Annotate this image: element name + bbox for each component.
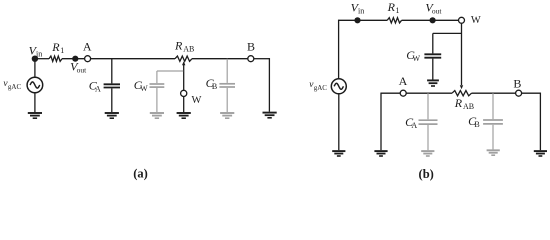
- wire: (b) R1 to node W: [402, 19, 459, 21]
- capacitor C_W (b): [424, 33, 441, 79]
- value label C_A (a): [89, 79, 101, 94]
- svg-text:1: 1: [396, 6, 400, 15]
- svg-text:1: 1: [60, 46, 64, 55]
- ground (b) source: [332, 151, 345, 156]
- ground (a) C_W (gray): [150, 113, 164, 118]
- svg-text:W: W: [192, 95, 202, 106]
- label Vin (a): [29, 43, 43, 58]
- svg-text:R: R: [387, 0, 396, 14]
- node W terminal (a): [181, 90, 187, 96]
- ground (a) source: [28, 113, 42, 118]
- potentiometer wiper arrow (b): [460, 85, 463, 89]
- wire: (b) node W down to wiper arrow: [461, 24, 463, 86]
- wire: (a) source to ground: [34, 93, 36, 112]
- wire: (a) C_W tap from wiper (gray): [157, 70, 183, 72]
- node A terminal (a): [85, 56, 91, 62]
- svg-text:B: B: [212, 82, 217, 91]
- node A terminal (b): [400, 90, 406, 96]
- svg-text:gAC: gAC: [8, 83, 22, 91]
- value label C_A (b): [405, 115, 417, 130]
- value label R1 (b): [387, 0, 400, 15]
- svg-text:out: out: [77, 66, 88, 75]
- capacitor C_B (b) gray: [483, 93, 503, 149]
- node W terminal (b): [459, 17, 465, 23]
- wire: (b) C_W tap from wiper line: [433, 32, 462, 34]
- AC source v_gAC (b): [331, 79, 346, 94]
- node Vin junction dot (a): [32, 56, 38, 62]
- wire: (b) top-left corner to R1: [339, 19, 388, 21]
- wire: (b) node A to R_AB: [406, 92, 452, 94]
- resistor R1 (a): [49, 56, 62, 61]
- svg-text:A: A: [411, 121, 417, 130]
- svg-text:A: A: [83, 39, 92, 53]
- node Vout junction dot (a): [72, 56, 78, 62]
- capacitor C_A (b) gray: [419, 93, 438, 150]
- capacitor C_B (a) gray: [219, 59, 235, 112]
- ground (b) rail right: [534, 151, 547, 156]
- node B terminal (a): [248, 56, 254, 62]
- wire: (a) top rail V_in to R1: [35, 58, 49, 60]
- svg-text:R: R: [454, 96, 463, 110]
- svg-text:B: B: [247, 39, 255, 53]
- wire: (a) W to ground: [183, 97, 185, 113]
- svg-text:in: in: [358, 7, 364, 16]
- wire: (b) R_AB to node B: [472, 92, 516, 94]
- potentiometer wiper arrow (a): [182, 61, 185, 90]
- svg-text:W: W: [140, 84, 148, 93]
- ground (a) C_B (gray): [220, 113, 234, 118]
- resistor R_AB (b): [452, 91, 472, 96]
- wire: (b) source to ground: [338, 94, 340, 150]
- label v_gAC (b): [309, 80, 327, 92]
- label Vout (b): [425, 1, 442, 16]
- ground (a) C_A: [105, 113, 119, 118]
- value label C_B (a): [206, 76, 218, 91]
- ground (a) W: [177, 113, 191, 118]
- value label R_AB (b): [454, 96, 474, 111]
- svg-text:(a): (a): [133, 166, 148, 180]
- svg-text:W: W: [471, 15, 481, 26]
- ground (b) C_A (gray): [421, 151, 434, 156]
- svg-text:gAC: gAC: [314, 84, 328, 92]
- svg-text:A: A: [399, 74, 408, 88]
- ground (a) right: [263, 113, 277, 118]
- value label C_W (a): [134, 78, 148, 93]
- capacitor C_W (a) gray: [150, 71, 165, 112]
- svg-text:W: W: [413, 54, 421, 63]
- svg-text:(b): (b): [419, 167, 434, 181]
- svg-text:AB: AB: [463, 102, 474, 111]
- wire: (b) bottom rail left end, down to ground: [381, 92, 400, 94]
- label Vin (b): [351, 1, 365, 16]
- node B terminal (b): [516, 90, 522, 96]
- wire: (a) node B to right corner and down: [254, 58, 269, 60]
- wire: (a) Vin down to source: [34, 59, 36, 78]
- wire: (a) R_AB to node B: [192, 58, 248, 60]
- resistor R1 (b): [387, 18, 401, 23]
- label Vout (a): [70, 60, 87, 75]
- svg-text:out: out: [432, 7, 443, 16]
- ground (b) C_B (gray): [487, 150, 500, 155]
- svg-text:R: R: [51, 40, 60, 54]
- svg-text:AB: AB: [183, 44, 194, 53]
- wire: (a) node A to R_AB: [91, 58, 175, 60]
- node Vin junction dot (b): [354, 17, 360, 23]
- wire: (b) node B to right corner, down to ground: [522, 92, 541, 94]
- svg-text:A: A: [95, 85, 101, 94]
- wire: (a) R1 to node A: [62, 58, 84, 60]
- node Vout junction dot (b): [430, 17, 436, 23]
- ground (b) C_W: [427, 80, 439, 86]
- ground (b) rail left: [374, 151, 387, 156]
- value label C_W (b): [406, 48, 420, 63]
- label v_gAC (a): [3, 79, 21, 91]
- svg-text:B: B: [513, 77, 521, 91]
- value label R1 (a): [51, 40, 64, 55]
- resistor R_AB (a): [175, 56, 192, 61]
- svg-text:in: in: [36, 49, 42, 58]
- AC source v_gAC (a): [27, 77, 43, 93]
- value label C_B (b): [468, 114, 480, 129]
- svg-text:B: B: [474, 120, 479, 129]
- svg-text:R: R: [174, 38, 183, 52]
- capacitor C_A (a): [104, 59, 120, 112]
- value label R_AB (a): [174, 38, 194, 53]
